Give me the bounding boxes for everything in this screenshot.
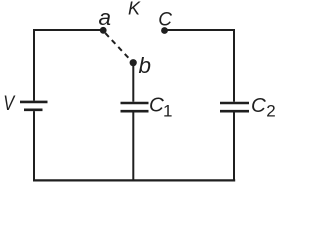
- battery V: [3, 91, 47, 114]
- node c: [158, 9, 172, 34]
- svg-text:K: K: [128, 0, 141, 19]
- node b: [130, 53, 151, 78]
- svg-text:C: C: [149, 93, 164, 116]
- capacitor C1: [121, 93, 173, 120]
- svg-text:1: 1: [163, 102, 172, 121]
- wire bottom segment: [33, 179, 235, 181]
- svg-text:V: V: [3, 91, 16, 114]
- wire middle vertical lower (C1 to bottom wire): [132, 113, 134, 182]
- wire middle vertical upper (node b to C1): [132, 63, 134, 102]
- svg-text:a: a: [99, 5, 112, 30]
- switch K (dashed blade a to b): [105, 0, 141, 61]
- wire top-right segment (node c to right corner): [165, 29, 236, 31]
- svg-text:b: b: [139, 53, 152, 78]
- capacitor C2: [220, 94, 276, 121]
- wire top-left segment (left corner to node a): [33, 29, 102, 31]
- wire left vertical upper (corner to battery): [33, 29, 35, 101]
- svg-text:2: 2: [266, 102, 275, 121]
- wire left vertical lower (battery to bottom corner): [33, 111, 35, 181]
- node a: [99, 5, 112, 34]
- svg-text:C: C: [251, 94, 266, 117]
- svg-text:C: C: [158, 9, 172, 30]
- wire right vertical upper (corner to C2): [233, 29, 235, 102]
- wire right vertical lower (C2 to bottom corner): [233, 113, 235, 182]
